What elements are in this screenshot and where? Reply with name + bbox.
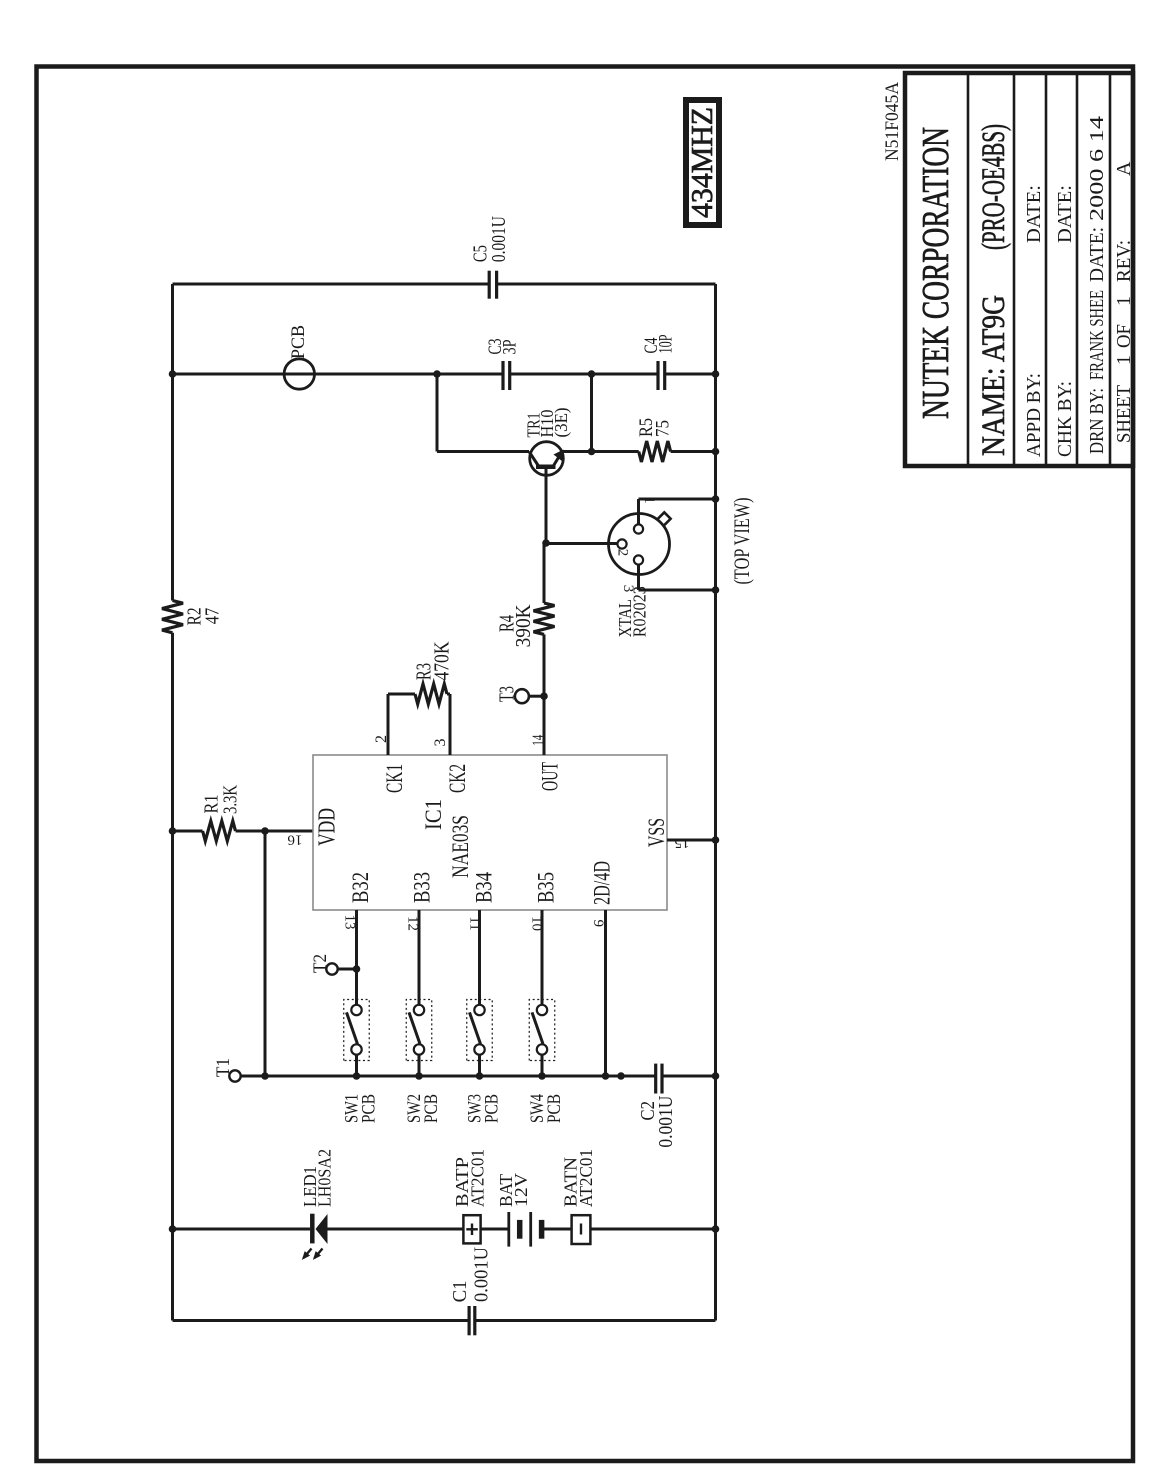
svg-text:470K: 470K bbox=[430, 642, 454, 681]
svg-text:R02023: R02023 bbox=[630, 586, 650, 637]
svg-text:0.001U: 0.001U bbox=[488, 216, 510, 262]
svg-text:CHK BY:: CHK BY: bbox=[1054, 381, 1076, 457]
svg-text:DATE:: DATE: bbox=[1086, 227, 1108, 282]
svg-text:AT2C01: AT2C01 bbox=[468, 1149, 488, 1207]
svg-text:9: 9 bbox=[590, 920, 606, 928]
svg-text:OUT: OUT bbox=[538, 762, 563, 791]
svg-text:47: 47 bbox=[202, 608, 224, 625]
svg-text:(3E): (3E) bbox=[551, 407, 572, 437]
svg-text:3P: 3P bbox=[500, 340, 521, 355]
svg-text:2: 2 bbox=[615, 549, 631, 557]
svg-text:PCB: PCB bbox=[421, 1094, 442, 1123]
svg-text:DATE:: DATE: bbox=[1023, 185, 1045, 243]
svg-text:REV:: REV: bbox=[1113, 240, 1135, 282]
svg-text:FRANK SHEE: FRANK SHEE bbox=[1086, 290, 1108, 380]
svg-text:0.001U: 0.001U bbox=[655, 1095, 677, 1147]
svg-text:DRN BY:: DRN BY: bbox=[1086, 388, 1108, 454]
svg-text:NUTEK CORPORATION: NUTEK CORPORATION bbox=[915, 127, 957, 419]
svg-text:VDD: VDD bbox=[315, 808, 341, 846]
svg-text:1: 1 bbox=[641, 496, 657, 504]
svg-text:PCB: PCB bbox=[482, 1094, 503, 1123]
svg-text:CK2: CK2 bbox=[445, 764, 470, 793]
svg-text:12V: 12V bbox=[511, 1173, 531, 1207]
svg-text:B34: B34 bbox=[472, 872, 497, 903]
svg-text:N51F045A: N51F045A bbox=[882, 82, 903, 161]
svg-text:IC1: IC1 bbox=[421, 799, 446, 830]
svg-text:OF: OF bbox=[1113, 324, 1135, 348]
svg-text:10P: 10P bbox=[656, 335, 677, 354]
svg-text:390K: 390K bbox=[511, 604, 535, 647]
svg-text:2000 6 14: 2000 6 14 bbox=[1086, 116, 1108, 221]
svg-text:DATE:: DATE: bbox=[1054, 185, 1076, 243]
svg-text:NAME: AT9G: NAME: AT9G bbox=[976, 295, 1012, 456]
svg-text:PCB: PCB bbox=[289, 325, 309, 359]
svg-text:3: 3 bbox=[432, 739, 449, 747]
svg-text:C1: C1 bbox=[449, 1280, 471, 1302]
svg-text:VSS: VSS bbox=[644, 818, 669, 847]
svg-text:SHEET: SHEET bbox=[1113, 385, 1135, 443]
svg-text:PCB: PCB bbox=[359, 1094, 380, 1123]
svg-text:AT2C01: AT2C01 bbox=[576, 1149, 596, 1207]
svg-text:1: 1 bbox=[1113, 296, 1135, 306]
svg-text:T1: T1 bbox=[213, 1058, 234, 1077]
svg-text:75: 75 bbox=[653, 420, 674, 437]
svg-text:2D/4D: 2D/4D bbox=[590, 861, 615, 905]
svg-text:PCB: PCB bbox=[544, 1094, 565, 1123]
svg-text:434MHZ: 434MHZ bbox=[684, 107, 719, 218]
svg-text:(TOP VIEW): (TOP VIEW) bbox=[729, 498, 754, 585]
svg-text:CK1: CK1 bbox=[382, 764, 407, 793]
svg-text:NAE03S: NAE03S bbox=[448, 815, 473, 878]
svg-text:16: 16 bbox=[287, 831, 303, 847]
svg-text:B33: B33 bbox=[410, 872, 435, 903]
svg-text:3.3K: 3.3K bbox=[220, 785, 242, 814]
svg-text:15: 15 bbox=[675, 835, 690, 851]
svg-text:1: 1 bbox=[1113, 355, 1135, 365]
svg-text:LH0SA2: LH0SA2 bbox=[315, 1149, 335, 1207]
svg-text:A: A bbox=[1113, 161, 1135, 176]
svg-text:B32: B32 bbox=[348, 872, 373, 903]
svg-text:B35: B35 bbox=[534, 872, 559, 903]
svg-text:T3: T3 bbox=[495, 686, 519, 702]
svg-text:APPD BY:: APPD BY: bbox=[1023, 373, 1045, 457]
svg-text:T2: T2 bbox=[310, 954, 331, 973]
svg-text:0.001U: 0.001U bbox=[471, 1246, 493, 1302]
svg-text:(PRO-OE4BS): (PRO-OE4BS) bbox=[976, 124, 1012, 250]
